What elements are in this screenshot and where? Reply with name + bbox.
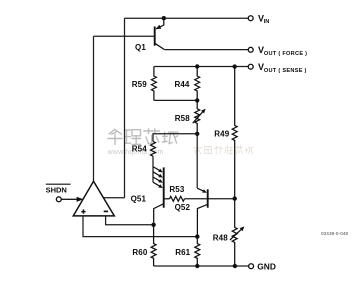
wire amp supply stub [104, 197, 125, 199]
wire Q52 emitter feed [196, 134, 198, 188]
junction dot R61 bottom [195, 264, 199, 268]
junction dot Q51 collector node [151, 223, 155, 227]
wire R59 R44 tie [154, 99, 197, 101]
terminal VIN [248, 16, 253, 21]
svg-text:R58: R58 [175, 114, 190, 123]
wire op-amp output to Q1 base [93, 36, 95, 181]
resistor R59 [151, 67, 156, 101]
svg-text:03438-0-048: 03438-0-048 [321, 231, 348, 236]
svg-text:OUT ( SENSE ): OUT ( SENSE ) [264, 68, 307, 74]
op-amp minus input marking [104, 210, 108, 212]
resistor R61 [195, 237, 200, 266]
svg-text:GND: GND [257, 261, 276, 271]
resistor R48 (variable) [230, 199, 245, 266]
wire VOUT force line [164, 49, 248, 51]
svg-text:Q1: Q1 [135, 43, 146, 52]
svg-text:R59: R59 [132, 80, 147, 89]
svg-text:OUT ( FORCE ): OUT ( FORCE ) [264, 51, 307, 57]
wire VIN vertical [124, 18, 126, 198]
svg-text:R54: R54 [132, 144, 147, 153]
resistor R44 [195, 67, 200, 101]
wire R53 to R48 node [185, 198, 235, 200]
wire minus input to node [106, 216, 154, 225]
junction dot R58 top [195, 98, 199, 102]
svg-text:R60: R60 [132, 248, 147, 257]
input terminal SHDN [56, 197, 61, 202]
resistor R58 (variable) [193, 100, 206, 133]
wire SHDN arrow [61, 197, 83, 202]
transistor Q52 [197, 188, 208, 236]
wire Q51 emitter feed [152, 156, 154, 182]
wire VOUT sense line [154, 66, 249, 68]
resistor R60 [151, 225, 156, 266]
wire ground rail [154, 265, 249, 267]
resistor R54 [151, 141, 156, 156]
junction dot R58 bottom [195, 132, 199, 136]
svg-text:Q52: Q52 [175, 203, 191, 212]
svg-text:R44: R44 [175, 80, 190, 89]
junction dot R48 top [233, 196, 237, 200]
resistor R53 [170, 196, 185, 201]
junction dot Q1 emitter [162, 16, 166, 20]
svg-text:R49: R49 [214, 130, 229, 139]
wire Q1 base [94, 35, 154, 37]
watermark logo hanzi [108, 129, 178, 145]
svg-text:SHDN: SHDN [46, 186, 67, 195]
svg-text:Q51: Q51 [131, 195, 147, 204]
watermark right tan text [194, 146, 254, 155]
terminal GND [249, 264, 254, 269]
junction dot R44 top [195, 64, 199, 68]
op-amp plus input marking [81, 209, 85, 213]
svg-text:R48: R48 [213, 234, 228, 243]
svg-text:R61: R61 [175, 248, 190, 257]
junction dot Q52 collector node [195, 234, 199, 238]
op-amp U51 body [73, 181, 114, 216]
wire R54 top link [153, 134, 197, 142]
transistor Q51 (quad emitter) [153, 167, 170, 225]
svg-text:R53: R53 [169, 185, 184, 194]
junction dot R48 bottom [233, 264, 237, 268]
junction dot R49 top [233, 64, 237, 68]
wire VIN rail [125, 17, 249, 19]
terminal VOUT FORCE [248, 47, 253, 52]
transistor Q1 [155, 18, 165, 49]
wire plus input to node [83, 216, 197, 237]
svg-text:IN: IN [264, 19, 270, 25]
terminal VOUT SENSE [248, 64, 253, 69]
resistor R49 [232, 67, 237, 199]
